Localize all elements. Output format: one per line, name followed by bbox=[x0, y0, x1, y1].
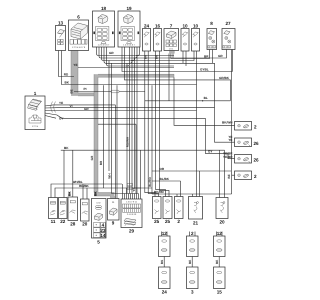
svg-text:2: 2 bbox=[254, 174, 257, 179]
svg-text:28: 28 bbox=[70, 222, 76, 227]
svg-text:BK: BK bbox=[155, 54, 159, 59]
wire 10a stub bbox=[183, 51, 186, 66]
control unit U13 bbox=[56, 21, 66, 51]
long verticals from 19 bbox=[126, 63, 128, 193]
wire PI h12 with resistor gap bbox=[74, 91, 145, 93]
wire 27 middle stub down to lamp 2 lower bbox=[231, 50, 233, 176]
wire WH/BL l4 bbox=[51, 184, 122, 198]
connector 12a bbox=[159, 231, 171, 257]
wire RD from 13 pin1 bbox=[59, 51, 75, 77]
stubs above 12a/2b/12c bbox=[162, 232, 223, 237]
wire BR h3 from 7 bbox=[171, 50, 210, 59]
svg-text:26: 26 bbox=[254, 158, 260, 163]
connector 25b bbox=[163, 197, 172, 225]
svg-text:15: 15 bbox=[217, 290, 223, 295]
wire GY down at 205 to lamp26 lower bbox=[206, 118, 235, 158]
connector 12c bbox=[214, 231, 226, 257]
svg-text:27: 27 bbox=[225, 21, 231, 26]
wire BK l1 bbox=[61, 149, 225, 151]
switch 28 bbox=[68, 191, 78, 226]
svg-text:RD/BK: RD/BK bbox=[79, 184, 90, 188]
svg-text:1: 1 bbox=[34, 91, 37, 96]
svg-text:19: 19 bbox=[126, 6, 132, 11]
pair links bbox=[163, 257, 165, 268]
wire BK/WH to lamp 2 bbox=[174, 101, 235, 126]
lamp connector 2 (right bottom) bbox=[227, 171, 257, 180]
relay 9 bbox=[108, 199, 120, 226]
connector 2 (bottom mid) bbox=[175, 197, 184, 225]
svg-text:GR: GR bbox=[109, 51, 114, 55]
svg-text:25: 25 bbox=[165, 219, 171, 224]
lamp connector 26 (upper) bbox=[228, 135, 259, 147]
svg-text:BR: BR bbox=[99, 160, 103, 165]
stubs to 20r bbox=[220, 150, 225, 197]
svg-text:5: 5 bbox=[97, 240, 100, 245]
svg-text:8: 8 bbox=[210, 21, 213, 26]
lamp2 bottom feed bbox=[232, 175, 235, 194]
svg-text:21: 21 bbox=[193, 221, 199, 226]
svg-text:BE: BE bbox=[215, 260, 219, 264]
svg-text:10: 10 bbox=[182, 24, 188, 29]
relay module 19 bbox=[118, 6, 140, 47]
lamp connector 2 (right top) bbox=[235, 122, 258, 131]
svg-text:BK: BK bbox=[94, 191, 98, 196]
svg-text:BL: BL bbox=[204, 96, 208, 100]
wire BL/RD vertical bbox=[151, 85, 153, 194]
wire long vertical 10b to 21 bbox=[196, 51, 198, 197]
connector 24b bbox=[159, 267, 171, 295]
svg-text:20: 20 bbox=[82, 222, 88, 227]
svg-text:YE: YE bbox=[73, 63, 77, 67]
svg-text:GR/BK: GR/BK bbox=[219, 76, 230, 80]
svg-text:GR: GR bbox=[218, 54, 223, 58]
wire BR vertical bbox=[102, 85, 104, 188]
long verticals from 18 bbox=[108, 61, 110, 172]
wire h2 staircase to 27 bbox=[99, 47, 137, 58]
svg-text:YE: YE bbox=[228, 135, 232, 139]
svg-text:29: 29 bbox=[129, 229, 135, 234]
gray cable band from 6 bbox=[71, 51, 174, 199]
wire BK from 13 pin2 bbox=[62, 51, 197, 85]
lamp 20 (right) bbox=[216, 198, 228, 225]
hatch into 29 bbox=[123, 150, 141, 199]
control unit 7 bbox=[164, 24, 179, 51]
wire mid horizontal to 136 bbox=[98, 124, 136, 193]
wire YE h7 bbox=[78, 67, 174, 69]
connector 1 bbox=[25, 91, 45, 130]
svg-text:YE: YE bbox=[59, 101, 63, 105]
switch 20 (left) bbox=[81, 199, 90, 227]
svg-text:1 2 3 4 5 6 7 8: 1 2 3 4 5 6 7 8 bbox=[72, 46, 86, 49]
svg-text:1 2 3 4: 1 2 3 4 bbox=[32, 125, 39, 128]
svg-text:GR: GR bbox=[90, 155, 94, 160]
svg-text:24: 24 bbox=[144, 24, 150, 29]
wire h4 bbox=[102, 47, 135, 61]
socket 8 bbox=[207, 21, 217, 50]
module 5 with fuses 4/23/14 bbox=[92, 191, 107, 244]
svg-text:22: 22 bbox=[60, 219, 66, 224]
lamp 21 bbox=[189, 197, 203, 226]
verticals to 22 bbox=[63, 150, 65, 197]
svg-text:2: 2 bbox=[191, 231, 194, 236]
svg-text:25: 25 bbox=[154, 219, 160, 224]
svg-text:12: 12 bbox=[162, 231, 168, 236]
wire YE down into 9 bbox=[114, 105, 116, 199]
svg-text:WH: WH bbox=[107, 173, 111, 179]
svg-text:BR: BR bbox=[204, 55, 209, 59]
svg-text:BK/RD: BK/RD bbox=[154, 190, 165, 194]
svg-text:BK: BK bbox=[160, 259, 164, 264]
svg-text:BE: BE bbox=[188, 260, 192, 264]
svg-text:LED: LED bbox=[96, 202, 101, 205]
switch 22 bbox=[59, 198, 68, 225]
stubs to 21 bbox=[193, 171, 200, 197]
svg-text:BK: BK bbox=[144, 54, 148, 59]
connector 15b bbox=[214, 267, 226, 295]
connector block 29 bbox=[121, 199, 142, 234]
svg-text:1 2 3 4 5 6 7: 1 2 3 4 5 6 7 bbox=[98, 44, 110, 47]
svg-text:12: 12 bbox=[217, 231, 223, 236]
svg-text:2: 2 bbox=[177, 219, 180, 224]
switch 24 bbox=[143, 24, 151, 52]
svg-text:9: 9 bbox=[112, 221, 115, 226]
svg-text:2: 2 bbox=[254, 125, 257, 130]
svg-text:7: 7 bbox=[170, 24, 173, 29]
svg-text:16: 16 bbox=[155, 24, 161, 29]
switch 11 bbox=[49, 198, 58, 225]
wire h6 bbox=[107, 47, 130, 66]
wire RD/BK l5 bbox=[55, 188, 152, 198]
svg-text:11: 11 bbox=[51, 219, 56, 224]
BOXES bbox=[25, 6, 259, 295]
svg-text:BK: BK bbox=[64, 146, 69, 150]
lamp connector 26 (lower) bbox=[223, 152, 259, 164]
svg-text:20: 20 bbox=[219, 220, 225, 225]
wire h5 bbox=[104, 47, 132, 63]
svg-text:10: 10 bbox=[193, 24, 199, 29]
svg-text:VI: VI bbox=[70, 104, 73, 108]
svg-text:OR: OR bbox=[160, 167, 165, 171]
svg-text:24: 24 bbox=[162, 290, 168, 295]
wire GRBK h9 bbox=[125, 47, 231, 101]
wire GYBL h8 bbox=[122, 47, 232, 72]
svg-text:5-10A: 5-10A bbox=[224, 46, 230, 49]
svg-text:18: 18 bbox=[101, 6, 107, 11]
svg-text:YE/BR: YE/BR bbox=[223, 152, 233, 156]
wire GR h1 bbox=[97, 47, 140, 56]
svg-text:BK: BK bbox=[68, 191, 72, 196]
svg-text:PI: PI bbox=[84, 87, 87, 91]
socket 27 bbox=[222, 21, 235, 50]
switch 10b bbox=[192, 24, 200, 52]
resistor R1 bbox=[84, 87, 119, 93]
svg-text:GYBL: GYBL bbox=[200, 68, 209, 72]
switch 16 bbox=[154, 24, 162, 52]
connector 2b bbox=[187, 231, 199, 257]
verticals from 24/16 bbox=[145, 51, 159, 197]
7 bottom cable stub bbox=[170, 51, 175, 54]
svg-text:14: 14 bbox=[100, 233, 106, 238]
connector 25a bbox=[153, 197, 162, 225]
svg-text:26: 26 bbox=[254, 141, 260, 146]
svg-text:13: 13 bbox=[58, 21, 64, 26]
svg-text:2 4 6 8 10: 2 4 6 8 10 bbox=[127, 213, 137, 216]
bundle arc bbox=[51, 102, 56, 113]
svg-text:BE: BE bbox=[69, 89, 73, 93]
svg-text:6: 6 bbox=[77, 15, 80, 20]
svg-text:BE: BE bbox=[227, 174, 231, 178]
control unit U6 (heater control) bbox=[69, 15, 89, 51]
verticals to 20L bbox=[83, 184, 87, 199]
wire BL/BK l3 bbox=[152, 180, 181, 182]
svg-text:RD/WH: RD/WH bbox=[125, 136, 129, 147]
splice symbols above 29 bbox=[127, 183, 132, 186]
comp1 fan wires bbox=[45, 105, 215, 119]
svg-text:3: 3 bbox=[191, 290, 194, 295]
svg-text:BL/BK: BL/BK bbox=[160, 177, 170, 181]
wire OR l2 bbox=[152, 170, 231, 172]
svg-text:BK: BK bbox=[65, 81, 70, 85]
svg-text:5-10A: 5-10A bbox=[209, 46, 215, 49]
svg-text:RD: RD bbox=[64, 73, 69, 77]
stubs to 25a/25b/2b bbox=[177, 181, 181, 197]
vertical to 9 bbox=[116, 85, 118, 198]
connector 3b bbox=[187, 267, 199, 295]
vertical to 28 bbox=[72, 150, 74, 197]
wire BK/RD l6 bbox=[152, 193, 232, 195]
relay module 18 bbox=[93, 6, 115, 47]
svg-text:BK/WH: BK/WH bbox=[222, 121, 233, 125]
svg-text:1 3 5 7 9 11: 1 3 5 7 9 11 bbox=[126, 201, 138, 204]
switch 10a bbox=[181, 24, 189, 52]
wire BL h13 bbox=[173, 77, 175, 101]
svg-text:GR: GR bbox=[84, 107, 89, 111]
svg-text:1 2 3 4 5 6 7: 1 2 3 4 5 6 7 bbox=[123, 44, 135, 47]
